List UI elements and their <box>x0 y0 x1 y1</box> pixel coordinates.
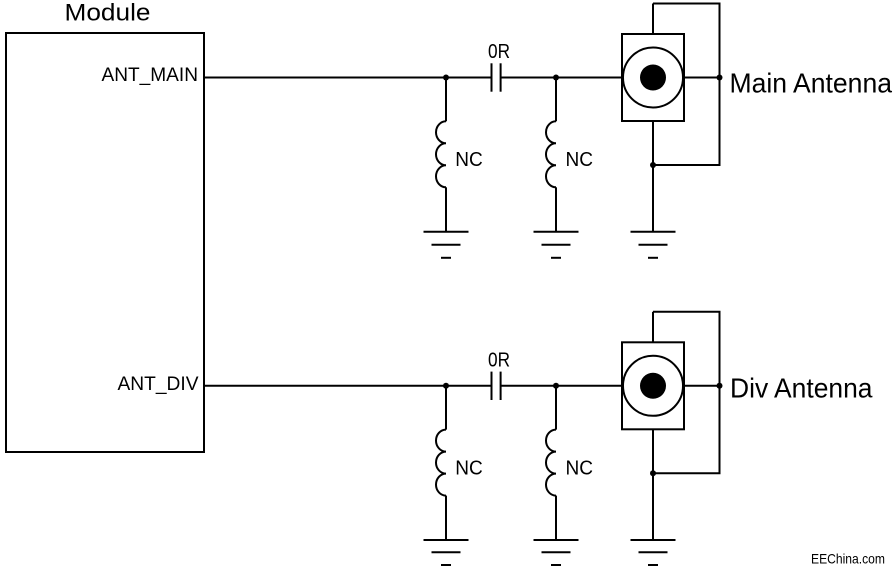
wire J2 shield to ground <box>652 429 654 540</box>
svg-text:0R: 0R <box>488 349 510 371</box>
node junction shield-loop bottom (J2) <box>650 470 656 476</box>
resistor R1 (0R, zero-ohm link drawn as plates) <box>492 63 501 91</box>
svg-text:0R: 0R <box>488 41 510 63</box>
svg-text:NC: NC <box>566 149 594 171</box>
inductor L2 (NC) <box>546 78 556 232</box>
wire J2 shield loop right side <box>653 312 720 474</box>
svg-text:NC: NC <box>566 457 594 479</box>
ground under L2 <box>534 232 579 258</box>
ground under L4 <box>534 540 579 565</box>
node junction shield-loop bottom <box>650 162 656 168</box>
wire J2 shield stub up <box>652 312 654 343</box>
node junction at L1 top <box>443 75 449 81</box>
node junction at L2 top <box>553 75 559 81</box>
wire R2 right plate to connector J2 <box>501 385 622 387</box>
svg-text:NC: NC <box>455 149 483 171</box>
wire J2 center pin to shield loop <box>684 385 720 387</box>
inductor L3 (NC) <box>436 386 446 540</box>
connector J1 body (Main antenna coax jack) <box>622 34 684 121</box>
node junction wire-loop right (J2) <box>717 383 723 389</box>
resistor R2 (0R, zero-ohm link drawn as plates) <box>492 372 501 400</box>
ground under J1 <box>631 232 676 258</box>
svg-text:ANT_MAIN: ANT_MAIN <box>102 64 199 86</box>
ground under L1 <box>424 232 469 258</box>
wire J1 shield stub up <box>652 4 654 35</box>
wire R1 right plate to connector J1 <box>501 77 622 79</box>
svg-text:Div Antenna: Div Antenna <box>730 373 873 404</box>
svg-text:EEChina.com: EEChina.com <box>811 551 885 567</box>
wire ANT_MAIN from module to resistor R1 left plate <box>204 77 492 79</box>
svg-text:ANT_DIV: ANT_DIV <box>118 373 199 395</box>
inductor L4 (NC) <box>546 386 556 540</box>
svg-text:Module: Module <box>65 0 151 27</box>
ground under L3 <box>424 540 469 565</box>
module box U1 <box>6 33 204 452</box>
wire J1 center pin to shield loop <box>684 77 720 79</box>
node junction wire-loop right <box>717 75 723 81</box>
svg-text:NC: NC <box>455 457 483 479</box>
wire J1 shield loop right side <box>653 4 720 166</box>
ground under J2 <box>631 540 676 565</box>
wire J1 shield to ground <box>652 121 654 232</box>
svg-text:Main Antenna: Main Antenna <box>730 68 893 99</box>
inductor L1 (NC) <box>436 78 446 232</box>
node junction at L4 top <box>553 383 559 389</box>
connector J2 body (Div antenna coax jack) <box>622 342 684 429</box>
node junction at L3 top <box>443 383 449 389</box>
wire ANT_DIV from module to resistor R2 left plate <box>204 385 492 387</box>
